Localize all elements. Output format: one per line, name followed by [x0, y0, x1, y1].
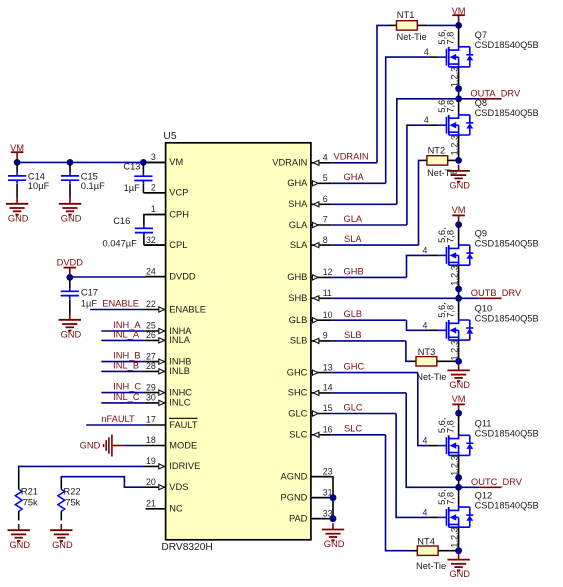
svg-text:10: 10	[323, 310, 333, 320]
pin 7 stub	[311, 224, 331, 226]
wire net ENABLE	[90, 309, 145, 311]
svg-text:C13: C13	[123, 162, 140, 172]
svg-text:CPH: CPH	[169, 209, 189, 219]
svg-text:VM: VM	[452, 394, 466, 404]
svg-text:FAULT: FAULT	[169, 420, 198, 430]
svg-text:4: 4	[423, 507, 428, 517]
svg-text:OUTA_DRV: OUTA_DRV	[470, 89, 521, 99]
svg-text:4: 4	[424, 47, 429, 57]
svg-text:6: 6	[323, 194, 328, 204]
svg-text:NT2: NT2	[428, 145, 446, 155]
resistor R22	[58, 489, 65, 511]
svg-text:R21: R21	[21, 486, 38, 496]
svg-text:16: 16	[323, 425, 333, 435]
node VM bottom junction	[455, 410, 462, 417]
svg-text:DVDD: DVDD	[169, 272, 196, 282]
wire DVDD to pin 24	[146, 276, 166, 278]
svg-text:2: 2	[151, 183, 156, 193]
svg-text:INLC: INLC	[169, 398, 190, 408]
svg-text:4: 4	[323, 153, 328, 163]
svg-text:NT4: NT4	[417, 536, 435, 546]
node VM junction 3	[140, 159, 147, 166]
resistor R21	[15, 489, 22, 511]
ground GND under Q12	[458, 553, 460, 559]
svg-text:5: 5	[323, 173, 328, 183]
wire net GLA to Q8 gate	[331, 224, 407, 226]
svg-text:C17: C17	[81, 288, 98, 298]
wire GND to MODE pin 18	[124, 445, 146, 447]
svg-text:GND: GND	[449, 181, 470, 191]
svg-text:17: 17	[146, 415, 156, 425]
node OUTC junction upper	[455, 474, 462, 481]
svg-text:MODE: MODE	[169, 440, 197, 450]
svg-text:75k: 75k	[65, 498, 80, 508]
svg-text:GND: GND	[61, 213, 82, 223]
wire VM rail to pin 3	[143, 161, 165, 163]
svg-text:AGND: AGND	[281, 472, 308, 482]
wire net nFAULT	[86, 424, 145, 426]
pin 23 stub	[311, 476, 331, 478]
svg-text:INL_C: INL_C	[113, 392, 140, 402]
svg-text:DVDD: DVDD	[57, 257, 84, 267]
pin 1 stub	[146, 214, 166, 216]
svg-text:4: 4	[424, 115, 429, 125]
svg-text:INL_A: INL_A	[113, 329, 140, 339]
pin 13 stub	[311, 372, 331, 374]
svg-text:SLA: SLA	[344, 234, 362, 244]
wire net SHB to OUTB	[331, 297, 479, 299]
svg-text:Q12: Q12	[475, 490, 493, 500]
wire DVDD rail	[70, 276, 146, 278]
wire net GHA to Q7 gate	[331, 182, 386, 184]
svg-text:0.1µF: 0.1µF	[81, 181, 105, 191]
svg-text:CSD18540Q5B: CSD18540Q5B	[475, 313, 539, 323]
FAULT overbar	[169, 417, 197, 419]
power DVDD	[64, 267, 77, 269]
svg-text:14: 14	[323, 383, 333, 393]
node OUTC junction	[455, 484, 462, 491]
svg-text:GHC: GHC	[287, 367, 308, 377]
svg-text:INL_B: INL_B	[113, 360, 139, 370]
transistor Q10 drain wire	[458, 298, 460, 320]
svg-text:nFAULT: nFAULT	[101, 414, 135, 424]
pin 21 stub	[146, 508, 166, 510]
power VM top	[452, 14, 465, 16]
svg-text:NC: NC	[169, 504, 183, 514]
svg-text:Net-Tie: Net-Tie	[416, 561, 446, 571]
pin 5 stub	[311, 182, 331, 184]
svg-text:1: 1	[151, 204, 156, 214]
svg-text:Net-Tie: Net-Tie	[416, 372, 446, 382]
ground GND under C14	[16, 198, 18, 204]
pin 32 stub	[146, 244, 166, 246]
transistor Q8 drain wire	[458, 99, 460, 115]
wire NT2 to Q8 source	[448, 159, 459, 161]
svg-text:C16: C16	[113, 216, 130, 226]
net-tie NT3	[416, 357, 437, 366]
svg-text:7,8: 7,8	[446, 420, 456, 433]
transistor Q12 drain wire	[458, 487, 460, 507]
wire Q9 source to OUTB node	[458, 265, 460, 298]
svg-text:GLB: GLB	[289, 315, 308, 325]
svg-text:GLA: GLA	[344, 214, 363, 224]
node OUTB junction upper	[455, 286, 462, 293]
power VM mid	[452, 214, 465, 216]
svg-text:7,8: 7,8	[446, 492, 456, 505]
capacitor C13	[142, 162, 144, 173]
wire net SLC to NT4	[331, 434, 385, 436]
svg-text:GLA: GLA	[289, 220, 308, 230]
node OUTA junction	[455, 95, 462, 102]
pin 15 stub	[311, 413, 331, 415]
node VM mid junction	[455, 221, 462, 228]
svg-text:GHC: GHC	[344, 362, 365, 372]
wire net INH_C	[101, 392, 145, 394]
node DVDD junction	[66, 274, 73, 281]
svg-text:SHB: SHB	[288, 293, 307, 303]
svg-text:Net-Tie: Net-Tie	[397, 32, 427, 42]
node VM junction 2	[67, 159, 74, 166]
svg-text:11: 11	[323, 288, 332, 298]
svg-text:SLA: SLA	[290, 240, 308, 250]
wire NT3 to Q10 source	[437, 360, 459, 362]
pin 4 stub	[311, 162, 331, 164]
svg-text:INH_C: INH_C	[113, 382, 141, 392]
svg-text:19: 19	[146, 456, 156, 466]
svg-text:7: 7	[323, 215, 328, 225]
wire net GLB to Q10 gate	[331, 319, 406, 321]
svg-text:INLB: INLB	[169, 366, 190, 376]
svg-text:INHC: INHC	[169, 387, 192, 397]
wire NT1 to VM node	[417, 24, 427, 26]
wire NT4 to Q12 source	[438, 550, 459, 552]
capacitor C14	[16, 162, 18, 172]
svg-text:32: 32	[146, 235, 156, 245]
svg-text:12: 12	[323, 267, 333, 277]
pin 33 stub	[311, 518, 331, 520]
wire net INL_B	[101, 370, 145, 372]
svg-text:GHB: GHB	[287, 272, 307, 282]
svg-text:C14: C14	[28, 171, 45, 181]
svg-text:GHA: GHA	[344, 172, 365, 182]
ground GND under Q8	[458, 165, 460, 171]
pin 26 stub	[146, 339, 166, 341]
svg-text:23: 23	[323, 466, 333, 476]
ground GND under R22	[60, 524, 62, 530]
svg-text:4: 4	[423, 436, 428, 446]
ground GND under C15	[69, 198, 71, 204]
pin 16 stub	[311, 434, 331, 436]
svg-text:28: 28	[146, 361, 156, 371]
wire Q11 source to OUTC node	[458, 455, 460, 487]
net-tie NT2	[427, 156, 448, 165]
capacitor C16	[143, 225, 145, 228]
svg-text:NT3: NT3	[418, 347, 436, 357]
pin 10 stub	[311, 319, 331, 321]
svg-text:GND: GND	[324, 539, 345, 549]
pin 24 stub	[146, 276, 166, 278]
svg-text:18: 18	[146, 435, 156, 445]
wire C13 to pin 2 VCP	[143, 192, 165, 194]
pin 20 stub	[146, 486, 166, 488]
node Q10 source junction	[455, 358, 462, 365]
svg-text:INHB: INHB	[169, 356, 191, 366]
svg-text:SHA: SHA	[288, 199, 308, 209]
svg-text:GLC: GLC	[344, 402, 363, 412]
pin 17 stub	[146, 424, 166, 426]
svg-text:24: 24	[146, 266, 156, 276]
svg-text:Q11: Q11	[475, 419, 492, 429]
svg-text:VDRAIN: VDRAIN	[334, 152, 369, 162]
svg-text:SLB: SLB	[344, 330, 362, 340]
ground GND under R21	[18, 524, 20, 530]
node PGND junction	[330, 494, 337, 501]
wire VM rail	[17, 161, 143, 163]
pin 28 stub	[146, 370, 166, 372]
wire net GLC to Q12 gate	[331, 413, 396, 415]
wire pin 1 CPH to C16	[144, 215, 166, 226]
ground GND under Q10	[458, 364, 460, 370]
wire net INL_C	[101, 402, 145, 404]
node OUTA junction upper	[455, 85, 462, 92]
svg-text:CSD18540Q5B: CSD18540Q5B	[475, 429, 539, 439]
svg-text:4: 4	[423, 245, 428, 255]
svg-text:GND: GND	[80, 441, 101, 451]
transistor Q12 CSD18540Q5B	[438, 516, 447, 518]
transistor Q8 CSD18540Q5B	[438, 124, 447, 126]
svg-text:CSD18540Q5B: CSD18540Q5B	[475, 238, 539, 248]
svg-text:DRV8320H: DRV8320H	[161, 542, 212, 553]
svg-text:VCP: VCP	[169, 188, 188, 198]
svg-text:Q7: Q7	[475, 30, 487, 40]
svg-text:10µF: 10µF	[28, 181, 50, 191]
pin 25 stub	[146, 330, 166, 332]
svg-text:VDS: VDS	[169, 482, 188, 492]
svg-text:20: 20	[146, 477, 156, 487]
net-tie NT4	[417, 546, 438, 555]
svg-text:ENABLE: ENABLE	[102, 298, 139, 308]
wire net GHB to Q9 gate	[331, 276, 406, 278]
wire net SLA to NT2	[331, 244, 418, 246]
svg-text:SLC: SLC	[344, 424, 362, 434]
svg-text:7,8: 7,8	[446, 305, 456, 318]
svg-text:CSD18540Q5B: CSD18540Q5B	[475, 40, 539, 50]
svg-text:GND: GND	[449, 380, 470, 390]
svg-text:9: 9	[323, 331, 328, 341]
svg-text:VDRAIN: VDRAIN	[272, 158, 307, 168]
svg-text:GND: GND	[449, 569, 470, 579]
pin 30 stub	[146, 402, 166, 404]
pin 29 stub	[146, 392, 166, 394]
pin 9 stub	[311, 340, 331, 342]
svg-text:27: 27	[146, 351, 156, 361]
wire C16 to pin 32 CPL	[144, 244, 166, 246]
transistor Q11 CSD18540Q5B	[438, 445, 447, 447]
node VM junction 1	[14, 159, 21, 166]
svg-text:1µF: 1µF	[81, 298, 98, 308]
svg-text:Q10: Q10	[475, 303, 493, 313]
svg-text:ENABLE: ENABLE	[169, 304, 206, 314]
svg-text:INH_B: INH_B	[113, 351, 140, 361]
pin 3 stub	[146, 161, 166, 163]
svg-text:CSD18540Q5B: CSD18540Q5B	[475, 108, 539, 118]
svg-text:26: 26	[146, 330, 156, 340]
svg-text:GND: GND	[61, 329, 82, 339]
svg-text:GHB: GHB	[344, 266, 364, 276]
ground GND under C17	[69, 314, 71, 320]
wire net SHC to OUTC	[331, 392, 406, 394]
svg-text:VM: VM	[452, 205, 466, 215]
pin 18 stub	[146, 445, 166, 447]
wire net INH_B	[101, 361, 145, 363]
capacitor C15	[69, 162, 71, 172]
wire Q12 source to GND node	[458, 527, 460, 551]
power VM bottom	[452, 403, 465, 405]
capacitor C17	[69, 277, 71, 288]
svg-text:0.047µF: 0.047µF	[103, 238, 138, 248]
node Q12 source junction	[455, 547, 462, 554]
pin 14 stub	[311, 392, 331, 394]
svg-text:OUTB_DRV: OUTB_DRV	[471, 288, 522, 298]
node PAD junction	[330, 515, 337, 522]
node OUTB junction	[455, 295, 462, 302]
svg-text:8: 8	[323, 235, 328, 245]
svg-text:7,8: 7,8	[446, 230, 456, 243]
wire net VDRAIN to NT1	[331, 162, 377, 164]
wire Q10 source to GND node	[458, 340, 460, 361]
transistor Q9 CSD18540Q5B	[438, 254, 447, 256]
svg-text:22: 22	[146, 299, 156, 309]
svg-text:15: 15	[323, 403, 333, 413]
wire net GHC to Q11 gate	[331, 372, 418, 374]
svg-text:INLA: INLA	[169, 335, 190, 345]
wire R22 to pin 20 VDS	[61, 477, 145, 488]
wire pin 31 PGND	[311, 497, 333, 499]
svg-text:GLC: GLC	[288, 408, 307, 418]
wire pin 23 AGND down	[311, 477, 333, 519]
svg-text:PGND: PGND	[281, 493, 308, 503]
svg-text:GND: GND	[8, 213, 29, 223]
transistor Q7 CSD18540Q5B	[438, 56, 447, 58]
svg-text:30: 30	[146, 393, 156, 403]
ground GND under PAD	[332, 523, 334, 529]
wire net INH_A	[101, 330, 145, 332]
svg-text:VM: VM	[169, 157, 183, 167]
transistor Q10 CSD18540Q5B	[438, 329, 447, 331]
transistor Q11 drain wire	[458, 413, 460, 435]
power VM left	[11, 151, 24, 153]
svg-text:Q8: Q8	[475, 98, 487, 108]
svg-text:OUTC_DRV: OUTC_DRV	[471, 477, 523, 487]
svg-text:75k: 75k	[23, 498, 38, 508]
pin 2 stub	[146, 192, 166, 194]
svg-text:R22: R22	[64, 486, 81, 496]
svg-text:7,8: 7,8	[446, 32, 456, 45]
svg-text:GND: GND	[52, 540, 73, 550]
svg-text:3: 3	[151, 152, 156, 162]
IC U5 DRV8320H body	[166, 143, 311, 540]
node VM top junction	[455, 22, 462, 29]
svg-text:CSD18540Q5B: CSD18540Q5B	[475, 500, 539, 510]
svg-text:21: 21	[146, 499, 156, 509]
wire net INL_A	[101, 339, 145, 341]
transistor Q9 drain wire	[458, 225, 460, 246]
svg-text:13: 13	[323, 362, 333, 372]
pin 22 stub	[146, 309, 166, 311]
svg-text:SHC: SHC	[288, 388, 308, 398]
svg-text:4: 4	[423, 320, 428, 330]
svg-text:VM: VM	[452, 6, 466, 16]
pin 31 stub	[311, 497, 331, 499]
svg-text:Q9: Q9	[475, 228, 487, 238]
svg-text:IDRIVE: IDRIVE	[169, 461, 200, 471]
svg-text:1µF: 1µF	[124, 183, 141, 193]
svg-text:NT1: NT1	[397, 10, 415, 20]
svg-text:SLB: SLB	[290, 336, 308, 346]
pin 11 stub	[311, 297, 331, 299]
svg-text:CPL: CPL	[169, 240, 187, 250]
transistor Q7 drain wire	[458, 25, 460, 46]
svg-text:PAD: PAD	[289, 514, 308, 524]
svg-text:29: 29	[146, 382, 156, 392]
svg-text:VM: VM	[10, 143, 24, 153]
node Q8 source junction	[455, 157, 462, 164]
wire net SLB to NT3	[331, 340, 406, 342]
pin 19 stub	[146, 465, 166, 467]
svg-text:SLC: SLC	[289, 430, 307, 440]
svg-text:GND: GND	[9, 540, 30, 550]
svg-text:GHA: GHA	[287, 178, 308, 188]
net-tie NT1	[397, 21, 418, 30]
svg-text:Net-Tie: Net-Tie	[427, 168, 457, 178]
svg-text:U5: U5	[163, 131, 176, 142]
pin 12 stub	[311, 276, 331, 278]
svg-text:7,8: 7,8	[446, 100, 456, 113]
pin 8 stub	[311, 244, 331, 246]
svg-text:GLB: GLB	[344, 309, 363, 319]
wire net SHA to OUTA	[331, 203, 397, 205]
wire Q8 source to GND node	[458, 135, 460, 160]
svg-text:C15: C15	[81, 171, 98, 181]
wire Q7 source to OUTA node	[458, 67, 460, 99]
wire R21 to pin 19 IDRIVE	[19, 466, 146, 471]
pin 27 stub	[146, 361, 166, 363]
wire pin 33 PAD	[311, 518, 333, 520]
pin 6 stub	[311, 203, 331, 205]
